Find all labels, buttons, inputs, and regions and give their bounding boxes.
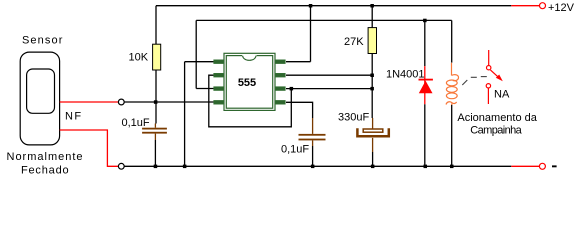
svg-text:0,1uF: 0,1uF [281, 143, 309, 155]
svg-text:+12V: +12V [548, 2, 575, 14]
svg-text:Campainha: Campainha [470, 124, 522, 136]
svg-text:Fechado: Fechado [21, 165, 69, 177]
svg-text:330uF: 330uF [338, 111, 369, 123]
svg-text:Normalmente: Normalmente [7, 151, 84, 163]
svg-text:27K: 27K [344, 36, 364, 48]
svg-text:0,1uF: 0,1uF [122, 117, 150, 129]
svg-text:NA: NA [494, 89, 510, 101]
svg-text:NF: NF [65, 111, 82, 123]
svg-text:Sensor: Sensor [22, 34, 63, 46]
svg-text:1N4001: 1N4001 [386, 69, 425, 81]
svg-text:555: 555 [238, 77, 256, 89]
svg-text:Acionamento da: Acionamento da [457, 112, 537, 124]
svg-text:10K: 10K [129, 51, 149, 63]
